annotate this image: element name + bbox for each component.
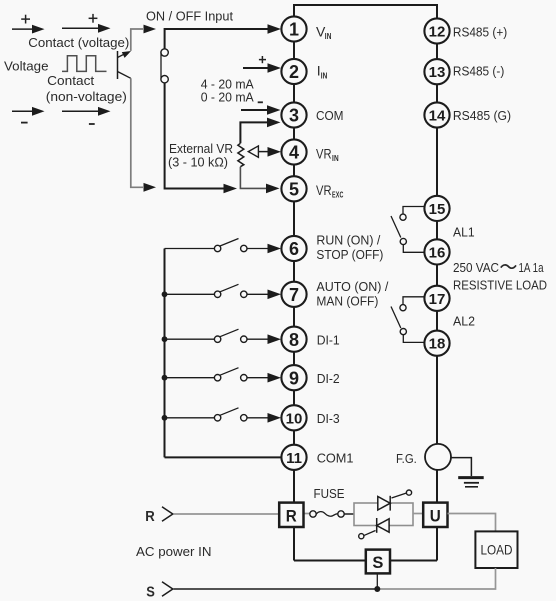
svg-text:1: 1 (289, 20, 299, 40)
svg-text:5: 5 (289, 179, 299, 199)
svg-text:U: U (430, 506, 441, 525)
svg-text:DI-1: DI-1 (317, 333, 340, 348)
svg-text:(non-voltage): (non-voltage) (46, 89, 127, 104)
svg-text:IN: IN (332, 154, 339, 163)
svg-text:3: 3 (289, 106, 299, 126)
svg-text:11: 11 (286, 450, 302, 467)
svg-text:12: 12 (429, 24, 446, 41)
svg-text:S: S (146, 584, 155, 601)
svg-text:18: 18 (429, 336, 446, 353)
svg-text:LOAD: LOAD (481, 542, 513, 558)
svg-text:RESISTIVE LOAD: RESISTIVE LOAD (453, 278, 547, 293)
svg-text:STOP (OFF): STOP (OFF) (316, 247, 383, 262)
svg-text:7: 7 (289, 285, 299, 305)
svg-text:COM: COM (316, 108, 344, 123)
svg-text:AL1: AL1 (453, 225, 475, 240)
svg-text:AC power IN: AC power IN (136, 544, 212, 559)
svg-text:IN: IN (325, 32, 332, 41)
svg-text:DI-2: DI-2 (317, 371, 340, 386)
svg-text:16: 16 (429, 244, 446, 261)
svg-text:10: 10 (286, 410, 303, 427)
svg-text:VR: VR (316, 146, 332, 162)
svg-text:RUN (ON) /: RUN (ON) / (316, 232, 380, 247)
svg-text:RS485 (+): RS485 (+) (453, 24, 507, 39)
svg-text:R: R (145, 508, 155, 525)
svg-text:17: 17 (429, 291, 446, 308)
svg-text:Voltage: Voltage (4, 59, 49, 74)
svg-text:6: 6 (289, 239, 299, 259)
svg-text:AL2: AL2 (453, 314, 475, 329)
svg-text:S: S (372, 553, 383, 572)
svg-text:IN: IN (321, 71, 328, 80)
svg-text:AUTO (ON) /: AUTO (ON) / (316, 279, 388, 294)
svg-text:(3 - 10 kΩ): (3 - 10 kΩ) (168, 155, 228, 170)
svg-text:9: 9 (289, 368, 299, 388)
svg-text:R: R (286, 506, 297, 525)
svg-text:RS485 (-): RS485 (-) (453, 64, 504, 79)
svg-text:DI-3: DI-3 (317, 411, 340, 426)
svg-text:14: 14 (429, 108, 446, 125)
svg-text:ON / OFF Input: ON / OFF Input (146, 8, 233, 23)
svg-text:RS485 (G): RS485 (G) (453, 108, 511, 123)
svg-text:8: 8 (289, 330, 299, 350)
svg-text:13: 13 (429, 64, 446, 81)
svg-text:Contact: Contact (47, 73, 94, 88)
svg-text:250 VAC: 250 VAC (453, 260, 499, 275)
svg-text:F.G.: F.G. (396, 451, 417, 466)
svg-text:2: 2 (289, 62, 299, 82)
svg-text:VR: VR (316, 182, 332, 198)
svg-text:MAN (OFF): MAN (OFF) (316, 294, 378, 309)
svg-text:15: 15 (429, 201, 446, 218)
svg-text:EXC: EXC (332, 191, 344, 200)
svg-text:0 - 20 mA: 0 - 20 mA (201, 90, 254, 105)
svg-text:COM1: COM1 (317, 451, 354, 466)
svg-text:4: 4 (289, 143, 299, 163)
svg-text:1A 1a: 1A 1a (519, 260, 544, 275)
svg-text:FUSE: FUSE (314, 486, 345, 501)
svg-text:Contact (voltage): Contact (voltage) (28, 35, 129, 50)
